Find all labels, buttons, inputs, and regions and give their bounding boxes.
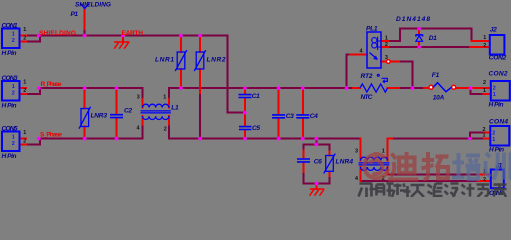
svg-text:1: 1 (483, 35, 486, 41)
capacitor C4 (296, 115, 309, 118)
node R bus @PL1 pin3 (410, 86, 414, 90)
wire L2 pin4 run to CON6 pin2 (361, 180, 479, 182)
pin LNR1 leads (180, 37, 182, 88)
wire SHIELDING drop lower (84, 29, 86, 36)
node S bus @C5 (243, 136, 247, 140)
wire L1 pin1 bend (168, 88, 170, 99)
svg-text:C5: C5 (252, 125, 260, 132)
pin LNR2 leads (199, 37, 201, 94)
svg-text:4: 4 (360, 49, 363, 55)
svg-text:J2: J2 (490, 27, 497, 34)
wire PL1 pin3 run and drop (399, 62, 412, 89)
node coil bottom @D1 (417, 45, 421, 49)
svg-text:2: 2 (483, 43, 486, 49)
svg-text:10A: 10A (433, 94, 445, 101)
pin L2.1 lead from CON4 line corner (388, 139, 393, 161)
svg-text:3: 3 (137, 95, 140, 101)
svg-text:CON3: CON3 (2, 75, 18, 82)
svg-text:R_Phase: R_Phase (41, 81, 62, 88)
pin RT2 right lead (388, 87, 400, 89)
node R bus @C1 (243, 86, 247, 90)
svg-text:1: 1 (385, 36, 388, 42)
node R bus @C4 (301, 86, 305, 90)
relay PL1 (367, 32, 381, 68)
pin C1 leads (244, 89, 246, 112)
ground earth top (114, 42, 130, 49)
node S bus @C4 (301, 136, 305, 140)
pin C3 leads (278, 89, 280, 138)
pin LNR4 leads (329, 152, 331, 177)
pin L1.4 lead (142, 116, 144, 124)
svg-text:2: 2 (493, 86, 496, 92)
pin CON3.1 stub (20, 87, 27, 89)
wire CON4 pin2 step (470, 133, 484, 139)
svg-text:LNR1: LNR1 (155, 56, 174, 63)
svg-text:1: 1 (23, 80, 26, 86)
svg-text:EARTH: EARTH (122, 30, 144, 37)
svg-text:3: 3 (385, 55, 388, 61)
svg-text:1: 1 (163, 95, 166, 101)
pin CON2top.2 stub (470, 46, 490, 48)
pin L2.3 lead from S bus corner (360, 139, 362, 161)
svg-text:1: 1 (12, 31, 15, 37)
node S bus @C3 (276, 136, 280, 140)
svg-text:CON2: CON2 (489, 70, 508, 77)
connector CON1 box (2, 29, 20, 49)
node R bus @LNR3 (83, 86, 87, 90)
svg-text:C2: C2 (124, 107, 132, 114)
node loop bottom earth (314, 181, 318, 185)
svg-text:CON1: CON1 (2, 22, 18, 29)
wire L1 pin2 bend (168, 125, 170, 139)
svg-text:2: 2 (492, 131, 495, 137)
svg-text:C4: C4 (310, 113, 318, 120)
wire R bus to fuse (412, 87, 424, 89)
svg-text:1: 1 (493, 92, 496, 98)
svg-text:S_Phase: S_Phase (40, 132, 62, 139)
pin C5 leads (244, 113, 246, 138)
svg-text:2: 2 (12, 38, 15, 44)
varistor LNR1 (175, 50, 187, 71)
connector CON2 top box (490, 35, 505, 55)
pin F1 left lead (424, 87, 429, 89)
svg-text:2: 2 (12, 90, 15, 96)
pin PL1.3 terminal circle (386, 60, 390, 64)
capacitor C6 (297, 159, 310, 162)
wire L1 pin3 bend (142, 88, 144, 99)
svg-text:NTC: NTC (361, 94, 373, 101)
svg-text:1: 1 (12, 84, 15, 90)
svg-text:CON2: CON2 (489, 54, 507, 61)
connector CON5 box (2, 132, 20, 152)
watermark text RF line (gray) (359, 184, 507, 198)
svg-text:2: 2 (385, 42, 388, 48)
svg-text:3: 3 (355, 149, 358, 155)
watermark char Di (388, 152, 419, 180)
wire CON5 pin2 step (26, 139, 40, 145)
svg-text:2: 2 (483, 80, 486, 86)
pin PL1.1 stub (381, 40, 388, 42)
pin L2.4 lead (360, 167, 362, 181)
node top bus @CON1 step (37, 33, 41, 37)
node S bus @LNR2 (198, 136, 202, 140)
node top bus @LNR2 (198, 33, 202, 37)
svg-text:H Pin: H Pin (2, 50, 17, 57)
svg-text:SHIELDING: SHIELDING (39, 30, 76, 37)
pin PL1.3 stub (381, 61, 387, 63)
wire PL1.3 circle to run (390, 61, 399, 63)
wire loop left upper (302, 144, 304, 150)
svg-text:P1: P1 (71, 11, 79, 18)
pin C4 leads (302, 89, 304, 138)
pin CON4.1 stub (484, 138, 490, 140)
wire L1 pin4 bend (142, 125, 144, 139)
pin LNR3 leads (84, 89, 86, 138)
wire earth2 stub (316, 183, 318, 189)
svg-text:H Pin: H Pin (2, 153, 17, 160)
svg-text:F1: F1 (432, 72, 440, 79)
wire loop right upper (329, 144, 331, 151)
svg-text:2: 2 (23, 36, 26, 42)
pin C6 leads (302, 151, 304, 173)
svg-text:2: 2 (23, 88, 26, 94)
wire S bus left segment (40, 138, 143, 140)
inductor L1 common-mode choke (141, 104, 171, 119)
wire RT2 right to PL1 pin3 node (399, 87, 412, 89)
svg-text:C3: C3 (286, 113, 294, 120)
connector CON3 box (2, 81, 20, 101)
svg-text:D1: D1 (429, 35, 437, 42)
wire S bus right segment (169, 138, 361, 140)
wire loop top (303, 143, 329, 145)
port P1 SHIELDING chevron (80, 3, 89, 8)
svg-text:CON5: CON5 (2, 125, 18, 132)
wire CON#2 pin1 step (471, 88, 484, 94)
node S bus @loop (314, 136, 318, 140)
wire PL1 pin4 drop (347, 55, 351, 89)
wire loop bottom (303, 182, 329, 184)
wire top EARTH bus (26, 35, 227, 37)
capacitor C3 (272, 115, 285, 118)
pin CON3.2 stub (20, 93, 27, 95)
pin L2.2 lead (387, 167, 389, 175)
wire CON3 pin2 step (26, 88, 40, 94)
pin L1.1 lead (168, 99, 170, 108)
pin CON5.2 stub (20, 143, 27, 145)
pin CON1.1 stub (20, 35, 27, 37)
wire loop drop from S bus (315, 139, 317, 145)
wire R bus middle segment (169, 87, 353, 89)
watermark char Tuo (422, 152, 449, 179)
connector CON4 box (490, 126, 509, 146)
pin L1.3 lead (142, 99, 144, 108)
pin PL1.4 stub (350, 54, 367, 56)
svg-text:CON4: CON4 (489, 119, 508, 126)
node R bus @PL1 pin4 (344, 86, 348, 90)
node R bus @fuse out (468, 86, 472, 90)
pin F1 right lead to junction and CON#2 pin2 (456, 87, 490, 89)
node loop top (314, 142, 318, 146)
node R bus @CON3 step (37, 86, 41, 90)
node coil top @D1 (417, 26, 421, 30)
svg-text:C6: C6 (314, 158, 322, 165)
varistor LNR3 (79, 107, 91, 129)
inductor L2 common-mode choke (359, 157, 390, 170)
wire earth stub top (122, 36, 124, 42)
svg-text:D1N4148: D1N4148 (396, 16, 430, 23)
pin CON5.1 stub (20, 138, 27, 140)
varistor LNR4 (324, 154, 336, 174)
watermark char Xun (486, 153, 511, 180)
node S bus @LNR3 (83, 136, 87, 140)
node R bus @C2 (114, 86, 118, 90)
node earth mid @C1/C5 (243, 110, 247, 114)
svg-text:RT2: RT2 (361, 73, 373, 80)
capacitor C1 (239, 95, 252, 98)
watermark char Pei (452, 153, 481, 179)
svg-text:4: 4 (355, 176, 358, 182)
connector CON2 right-mid box (491, 81, 510, 101)
pin CON6.2 stub (478, 180, 491, 182)
thermistor RT2 t-arrow (377, 74, 387, 83)
varistor LNR2 (194, 50, 206, 71)
pin CON6.1 stub (478, 174, 491, 176)
svg-text:2: 2 (23, 139, 26, 145)
node top bus @earth (121, 33, 125, 37)
svg-text:1: 1 (23, 130, 26, 136)
node CON4 line @step (468, 136, 472, 140)
wire LNR2 lower run to S bus (199, 93, 201, 138)
pin P1 shielding port lead (84, 8, 86, 29)
connector CON6 box (491, 170, 504, 189)
wire relay coil pin1 to CON2 top loop (388, 29, 472, 42)
svg-text:2: 2 (483, 177, 486, 183)
wire relay coil pin2 run (388, 46, 470, 48)
wire L2 pin2 run to CON6 pin1 (388, 174, 479, 176)
wire loop right lower (329, 176, 331, 183)
svg-text:1: 1 (483, 88, 486, 94)
svg-text:H Pin: H Pin (489, 147, 504, 154)
node top bus @shielding (83, 33, 87, 37)
svg-text:H Pin: H Pin (2, 102, 17, 109)
svg-text:LNR4: LNR4 (336, 158, 354, 165)
ground earth bottom (310, 189, 325, 196)
node S bus @CON5 step (37, 136, 41, 140)
svg-text:SHIELDING: SHIELDING (75, 1, 111, 8)
diode D1 (416, 35, 423, 42)
node top bus @LNR1 (179, 33, 183, 37)
wire CON1 pin2 step (26, 36, 40, 42)
capacitor C2 (110, 115, 123, 118)
svg-text:1: 1 (492, 137, 495, 143)
svg-text:L1: L1 (171, 105, 179, 112)
pin PL1.2 stub (381, 46, 388, 48)
svg-text:1: 1 (483, 133, 486, 139)
wire loop left lower (302, 172, 304, 183)
capacitor C5 (239, 127, 252, 130)
thermistor RT2 zigzag (360, 84, 388, 92)
fuse F1 (429, 83, 456, 92)
pin RT2 left lead (353, 87, 360, 89)
node R bus @C3 (276, 86, 280, 90)
svg-text:1: 1 (23, 27, 26, 33)
svg-text:4: 4 (137, 126, 140, 132)
node S bus @C2 (114, 136, 118, 140)
pin CON2top.1 stub (472, 40, 490, 42)
svg-text:C1: C1 (252, 93, 260, 100)
node R bus @LNR1 (179, 86, 183, 90)
svg-text:2: 2 (164, 126, 167, 132)
wire R bus left segment (40, 87, 143, 89)
pin D1 leads (418, 29, 420, 48)
pin CON#2 pin1 stub (484, 93, 491, 95)
watermark logo swirl (364, 152, 388, 178)
svg-text:LNR2: LNR2 (207, 56, 226, 63)
pin L1.2 lead (168, 116, 170, 124)
svg-text:1: 1 (12, 134, 15, 140)
pin C2 leads (116, 89, 118, 138)
svg-text:LNR3: LNR3 (91, 113, 108, 120)
svg-text:2: 2 (12, 141, 15, 147)
svg-text:H Pin: H Pin (489, 101, 504, 108)
wire L2 top-right to CON4 run (392, 138, 484, 140)
svg-text:PL1: PL1 (366, 26, 378, 33)
wire mid earth tap down and right to C1/C5 node (227, 36, 245, 113)
pin CON1.2 stub (20, 40, 27, 42)
pin CON4.2 stub (484, 132, 490, 134)
